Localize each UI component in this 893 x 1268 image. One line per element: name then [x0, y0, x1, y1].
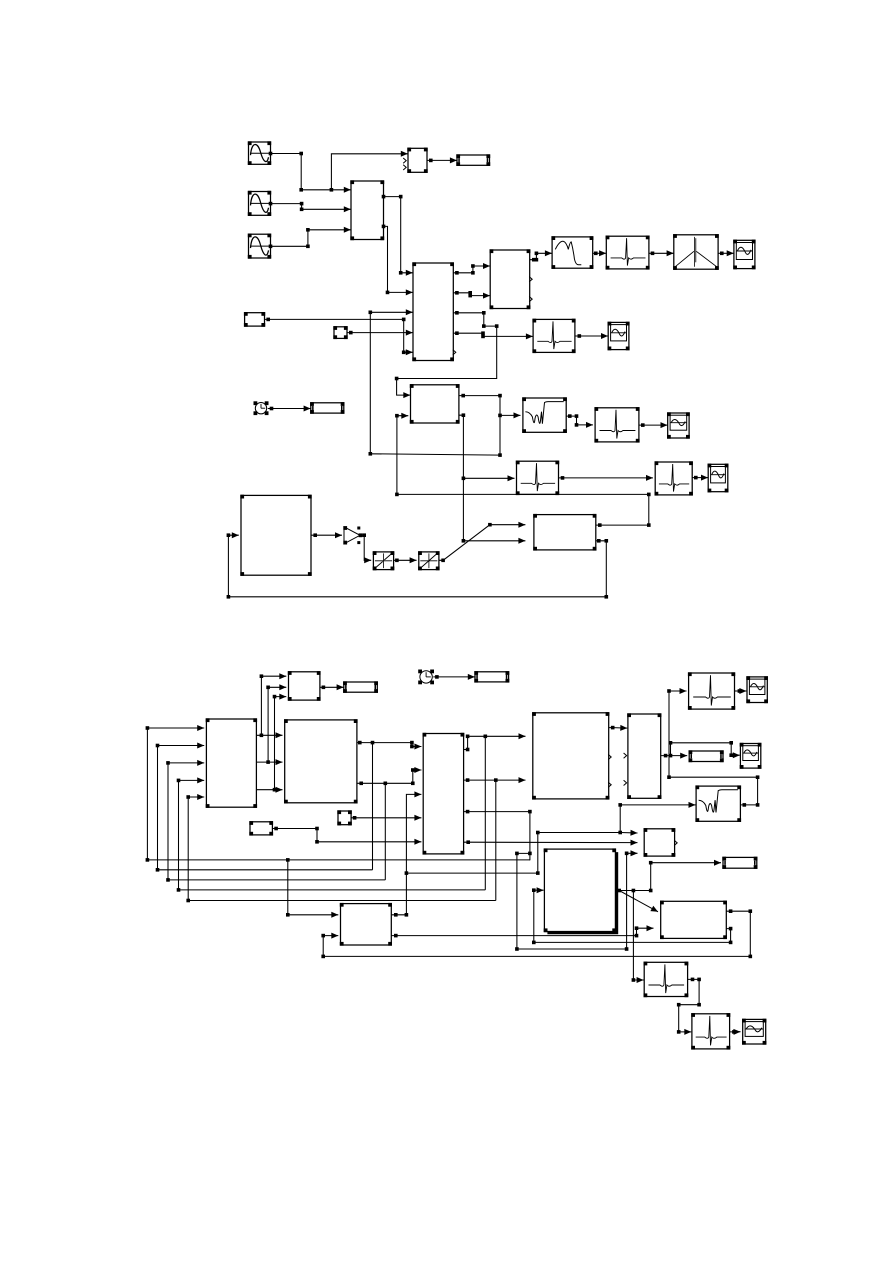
wire L1 out2 to L2 in2 — [256, 759, 282, 765]
spectrum block Spectrum1 — [673, 234, 719, 270]
wire B2 out3 to B4 in1 — [395, 311, 499, 398]
constant block Const1 — [244, 312, 265, 327]
scope block Scope2 — [608, 322, 630, 351]
wire Spectrum1 to Scope1 — [718, 250, 734, 256]
wire branch Shadow1 out to ZeroPole7 — [619, 889, 643, 983]
feedback wire B4 out1 to B2 in3 — [369, 309, 413, 455]
wire Clock2 to Display4 — [433, 674, 475, 680]
notch filter block Notch1 — [522, 397, 567, 433]
wire Sat1 to Sat2 — [394, 557, 417, 563]
inport block In1 — [333, 326, 347, 339]
wire Const1 to B2 in5 — [265, 318, 413, 356]
jog wire M out3 to fcn chain — [515, 850, 637, 951]
wire Gain1 to Sat1 — [361, 533, 372, 563]
wire Compare1 to Display1 — [427, 157, 457, 163]
zero-pole block ZeroPole1 — [606, 236, 650, 270]
display block Display1 — [456, 154, 490, 166]
tap wire L2 out1 to bus2 — [371, 741, 375, 870]
saturation block Sat2 — [418, 551, 439, 570]
sine wave source block Sine2 — [248, 191, 271, 216]
wire branch Sine1 to Compare in1 — [330, 151, 408, 192]
wire L1 out3 to L2 in3 — [256, 787, 282, 793]
zero-pole block ZeroPole3 — [594, 407, 639, 442]
wire M out3 down to bus1 — [464, 810, 532, 860]
tap M out1 down to bus4 — [484, 736, 486, 890]
function block Fcn1 — [644, 828, 676, 857]
saturation block Sat1 — [373, 551, 395, 570]
wire B4 out1 to Notch1 and feedback — [459, 394, 521, 419]
tap M out2 down to bus5 — [495, 780, 497, 900]
wire Notch2 out up to ZeroPole6 — [667, 688, 759, 807]
unconnected output port B3 out3 — [529, 297, 532, 302]
wire Clock1 to Display2 — [268, 406, 311, 412]
subsystem block R — [532, 712, 609, 800]
subsystem block B5 — [240, 495, 311, 576]
wire Const2 to M in5 — [272, 827, 421, 845]
unconnected output port Fcn1 out — [674, 840, 677, 845]
wire ZeroPole4 to ZeroPole5 — [559, 475, 654, 481]
display block Display4 — [474, 671, 509, 683]
zero-pole block ZeroPole7 — [644, 962, 689, 998]
wire branch L1 out2 to Sum1 in2 — [266, 684, 286, 762]
analog filter block Filter1 — [551, 236, 593, 269]
wire N out1 up to M in3 — [391, 791, 421, 916]
wire ZeroPole1 to Spectrum1 — [649, 250, 674, 256]
unconnected output port B2 out5 — [453, 350, 456, 355]
feedback wire B7 out1 to B4 in2 — [395, 413, 650, 527]
wire B1 out2 down to B2 in2 — [382, 225, 413, 296]
wire B5 to Gain1 — [311, 532, 342, 538]
scope block Scope4 — [708, 464, 729, 493]
wire B4 out2 down to ZeroPole4 and B7 in2 — [459, 413, 515, 481]
wire Filter1 to ZeroPole1 — [593, 250, 606, 256]
wire In2 to M in4 — [351, 815, 421, 821]
wire ZeroPole6 to Scope6 — [735, 688, 747, 694]
wire branch S out to Scope5 — [669, 741, 740, 758]
subsystem block L1 — [206, 718, 257, 808]
subsystem block L2 — [284, 719, 358, 803]
subsystem block B1 — [350, 180, 384, 240]
subsystem block B2 — [412, 262, 454, 361]
display block Display5 — [689, 750, 724, 762]
wire ZeroPole7 to ZeroPole8 — [677, 978, 701, 1035]
wire Shadow1 out diagonal to T in1 — [615, 889, 658, 912]
unconnected input port Compare1 in2 — [403, 158, 406, 163]
zero-pole block ZeroPole4 — [516, 461, 559, 496]
wire ZeroPole8 to Scope7 — [730, 1029, 741, 1035]
tap wire L2 out2 to bus3 — [384, 782, 388, 880]
wire R out1 to S in — [609, 725, 628, 731]
subsystem block M — [423, 733, 465, 855]
clock block Clock2 — [418, 670, 434, 685]
feedback bus wire 5 to L1 in5 — [186, 794, 495, 902]
unconnected input port Compare1 in3 — [403, 165, 406, 170]
feedback wire B7 out2 to B5 in — [227, 532, 608, 598]
subsystem block T — [660, 901, 727, 940]
unconnected input port S in3 — [624, 780, 627, 785]
feedback bus wire 4 to L1 in4 — [177, 777, 486, 891]
sine wave source block Sine3 — [248, 234, 271, 259]
wire B1 out1 down to B2 in1 — [382, 195, 413, 276]
gain block Gain1 — [343, 526, 362, 544]
wire B3 out1 to Filter1 — [530, 250, 552, 261]
wire Sum1 to Display3 — [320, 684, 344, 690]
scope block Scope1 — [733, 240, 755, 270]
wire ZeroPole5 to Scope4 — [692, 475, 708, 481]
wire S out to Display5 — [661, 753, 688, 759]
wire M out4 to Fcn in2 — [464, 840, 638, 846]
wire branch to Fcn1 in1 — [406, 830, 637, 875]
wire branch L1 out1 to Sum1 in1 — [260, 673, 287, 735]
subsystem block B4 — [410, 384, 460, 424]
feedback wire T out1 to N in2 — [321, 909, 752, 958]
wire L1 out1 to L2 in1 — [256, 732, 282, 738]
feedback wire T out2 to Shadow1 in — [532, 887, 732, 944]
relational operator block Compare1 — [407, 148, 427, 173]
wire Sat2 to B7 in1 diagonal — [439, 522, 526, 562]
wire ZeroPole3 to Scope3 — [639, 422, 668, 428]
wire branch to B7 in2 — [462, 478, 526, 544]
display block Display3 — [343, 681, 378, 693]
scope block Scope5 — [740, 743, 762, 769]
unconnected input port S in2 — [624, 753, 627, 758]
unconnected output port B3 out2 — [529, 277, 532, 282]
zero-pole block ZeroPole6 — [688, 672, 735, 710]
wire M out1 to R in1 — [464, 733, 526, 751]
notch filter block Notch2 — [695, 785, 741, 822]
feedback bus wire 1 to L1 in1 — [146, 725, 531, 862]
sine wave source block Sine1 — [248, 141, 271, 165]
zero-pole block ZeroPole5 — [655, 461, 693, 495]
clock block Clock1 — [254, 401, 269, 415]
subsystem block Shadow1 — [544, 848, 617, 933]
unconnected output port R out3 — [608, 782, 611, 787]
unconnected output port R out2 — [608, 754, 611, 759]
wire L2 out1 to M in1 — [357, 741, 422, 750]
wire L2 out2 to M in2 — [357, 767, 422, 785]
subsystem block S — [627, 713, 661, 799]
wire branch L1 out3 to Sum1 in3 — [273, 694, 287, 790]
display block Display6 — [722, 857, 757, 869]
feedback bus wire 3 to L1 in3 — [166, 760, 385, 882]
wire ZeroPole2 to Scope2 — [575, 333, 608, 339]
zero-pole block ZeroPole8 — [691, 1013, 730, 1050]
subsystem block N — [340, 903, 392, 946]
wire Notch1 to ZeroPole3 — [566, 414, 593, 428]
scope block Scope6 — [746, 676, 768, 703]
scope block Scope3 — [667, 412, 690, 438]
scope block Scope7 — [742, 1019, 766, 1045]
wire Sine1 to Mux1 in1 — [269, 152, 351, 193]
subsystem block B7 — [533, 514, 596, 551]
wire B2 out4 to ZeroPole2 in — [453, 331, 533, 339]
display block Display2 — [310, 402, 344, 414]
inport block In2 — [337, 810, 352, 825]
wire B2 out1 to B3 in1 — [453, 263, 490, 275]
sum block Sum1 — [288, 671, 321, 701]
zero-pole block ZeroPole2 — [532, 319, 575, 353]
wire B4 out1 feedback down-left — [370, 415, 502, 457]
wire N out2 to T in2 — [391, 925, 653, 937]
subsystem block B3 — [490, 249, 531, 309]
wire M out2 to R in2 — [464, 777, 526, 783]
feedback bus wire 2 to L1 in2 — [156, 743, 373, 872]
wire B2 out2 to B3 in2 — [453, 291, 490, 299]
wire bus1 tap to N in1 — [286, 860, 338, 918]
wire branch Shadow1 out to Display6 — [633, 860, 721, 893]
wire to Notch2 input — [618, 802, 695, 833]
constant block Const2 — [249, 821, 273, 836]
wire Sine3 to Mux1 in3 — [269, 227, 351, 248]
wire Sine2 to Mux1 in2 — [269, 202, 351, 213]
wire In1 to B2 in4 — [347, 330, 413, 336]
